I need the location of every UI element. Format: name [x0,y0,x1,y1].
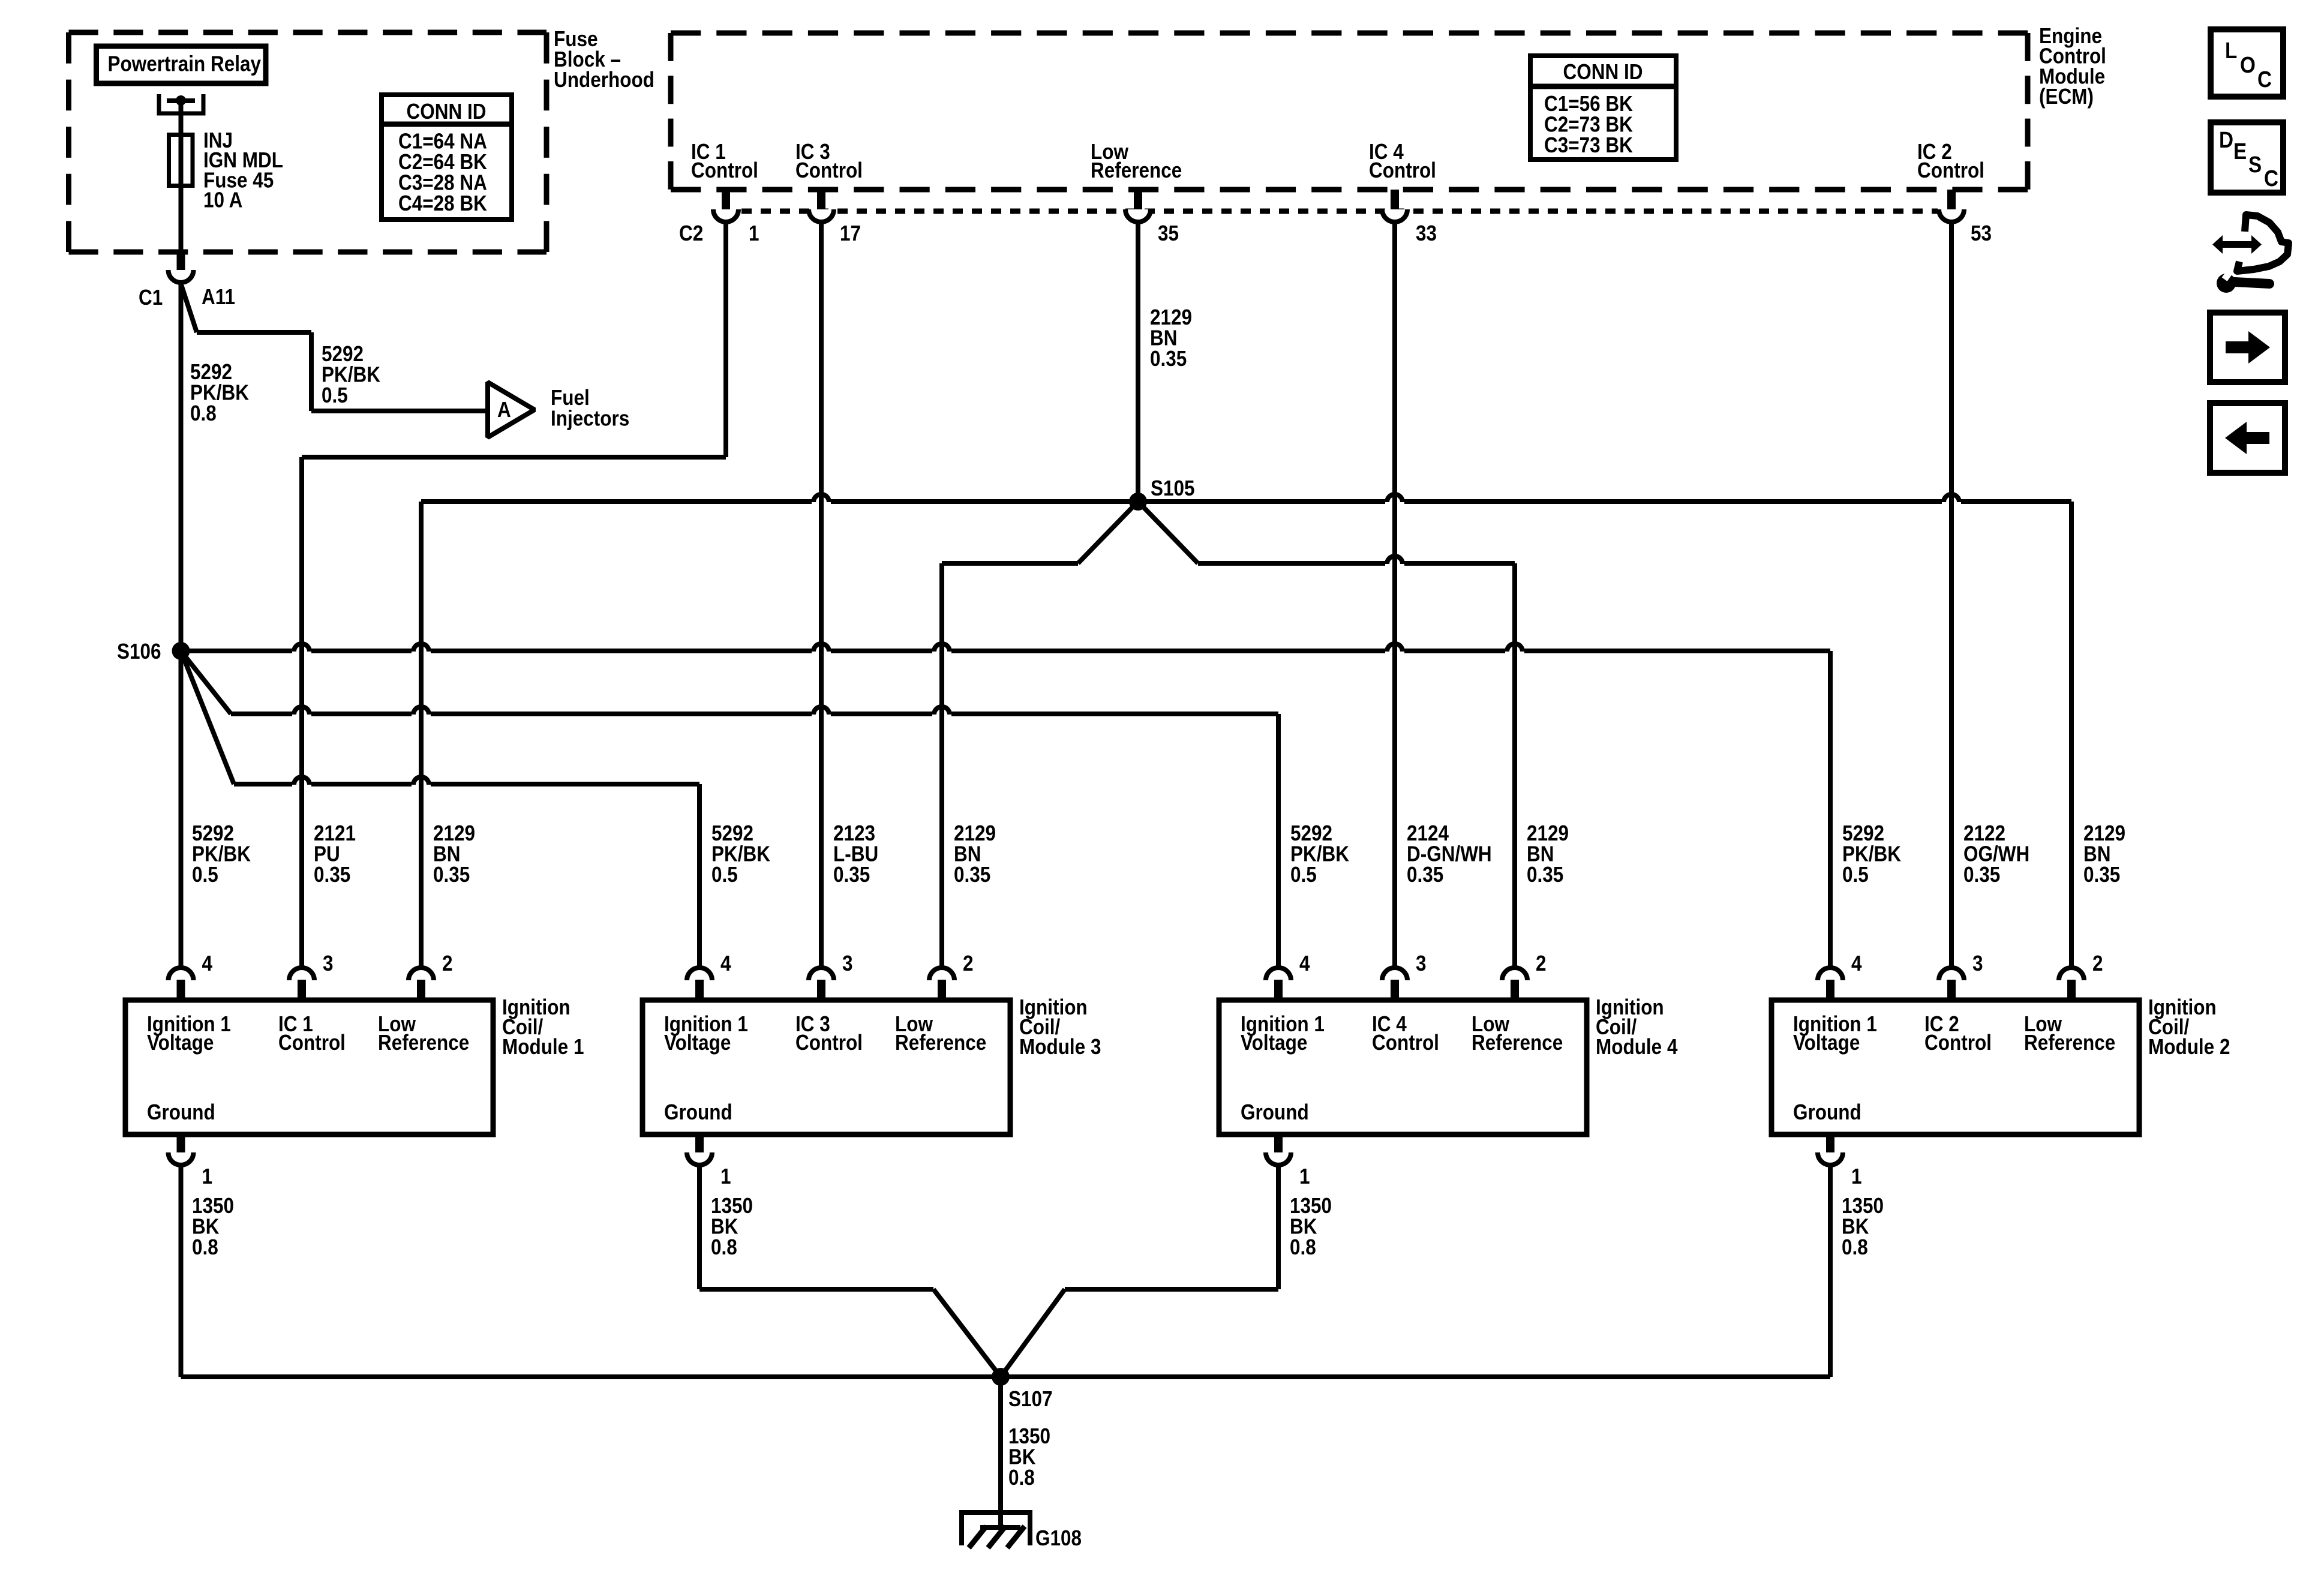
svg-text:4: 4 [1851,951,1862,975]
svg-text:Control: Control [1372,1031,1439,1055]
svg-text:Module 2: Module 2 [2148,1035,2230,1059]
svg-text:0.35: 0.35 [1527,863,1563,887]
svg-text:3: 3 [323,951,334,975]
svg-text:Control: Control [1917,158,1984,182]
svg-text:0.35: 0.35 [1407,863,1443,887]
svg-text:0.35: 0.35 [433,863,470,887]
svg-text:Ground: Ground [1241,1100,1309,1124]
svg-text:Module 3: Module 3 [1019,1035,1101,1059]
svg-text:A11: A11 [202,285,235,309]
svg-text:C2: C2 [679,221,703,245]
svg-text:Underhood: Underhood [554,68,654,92]
svg-text:Voltage: Voltage [147,1031,214,1055]
svg-text:4: 4 [202,951,213,975]
svg-text:33: 33 [1416,221,1437,245]
svg-text:CONN ID: CONN ID [1563,60,1643,84]
svg-text:0.35: 0.35 [1963,863,2000,887]
svg-text:4: 4 [1299,951,1310,975]
svg-text:Ground: Ground [1793,1100,1861,1124]
svg-text:10 A: 10 A [203,188,242,212]
svg-text:Voltage: Voltage [1241,1031,1307,1055]
svg-text:Control: Control [795,1031,863,1055]
svg-text:1: 1 [720,1164,731,1188]
svg-text:0.35: 0.35 [1150,347,1187,371]
svg-text:2: 2 [1536,951,1547,975]
svg-text:0.5: 0.5 [322,383,348,407]
svg-text:17: 17 [840,221,861,245]
svg-text:2: 2 [2092,951,2103,975]
svg-text:1: 1 [202,1164,213,1188]
svg-text:1: 1 [749,221,759,245]
svg-text:0.5: 0.5 [192,863,218,887]
svg-text:3: 3 [1416,951,1427,975]
svg-text:0.8: 0.8 [1008,1466,1035,1490]
svg-text:O: O [2240,52,2256,78]
svg-text:1: 1 [1299,1164,1310,1188]
svg-text:Module 1: Module 1 [502,1035,584,1059]
svg-text:C: C [2264,166,2278,191]
svg-text:Control: Control [278,1031,346,1055]
svg-text:0.5: 0.5 [1842,863,1869,887]
svg-text:53: 53 [1971,221,1992,245]
svg-text:S: S [2248,152,2262,178]
svg-text:4: 4 [720,951,731,975]
svg-text:Reference: Reference [378,1031,469,1055]
svg-text:G108: G108 [1035,1526,1082,1550]
svg-text:3: 3 [1972,951,1983,975]
svg-text:Control: Control [1924,1031,1992,1055]
svg-text:Voltage: Voltage [1793,1031,1860,1055]
svg-text:1: 1 [1851,1164,1862,1188]
svg-text:Voltage: Voltage [664,1031,731,1055]
svg-text:0.35: 0.35 [314,863,350,887]
svg-text:Ground: Ground [664,1100,732,1124]
svg-text:L: L [2225,38,2237,64]
svg-text:Reference: Reference [1091,158,1182,182]
svg-text:2: 2 [442,951,453,975]
svg-text:C1: C1 [139,286,163,310]
svg-text:Reference: Reference [895,1031,986,1055]
svg-text:Control: Control [1369,158,1436,182]
svg-text:S105: S105 [1151,476,1195,500]
svg-text:D: D [2219,127,2233,153]
svg-text:C: C [2257,67,2272,92]
svg-text:Control: Control [691,158,758,182]
svg-text:S107: S107 [1008,1387,1053,1411]
svg-text:0.8: 0.8 [711,1235,737,1259]
svg-text:2: 2 [963,951,974,975]
svg-text:(ECM): (ECM) [2039,85,2094,109]
svg-text:0.5: 0.5 [711,863,738,887]
svg-text:0.5: 0.5 [1290,863,1317,887]
svg-text:0.35: 0.35 [954,863,990,887]
svg-text:S106: S106 [117,640,161,664]
svg-text:C4=28 BK: C4=28 BK [398,191,487,215]
svg-text:0.35: 0.35 [2083,863,2120,887]
svg-text:Module 4: Module 4 [1596,1035,1678,1059]
svg-text:3: 3 [842,951,853,975]
svg-text:0.8: 0.8 [192,1235,218,1259]
svg-text:0.8: 0.8 [1290,1235,1316,1259]
svg-text:Reference: Reference [1472,1031,1563,1055]
svg-text:35: 35 [1158,221,1179,245]
svg-text:Control: Control [795,158,863,182]
svg-text:0.35: 0.35 [833,863,870,887]
svg-text:Powertrain Relay: Powertrain Relay [108,52,262,76]
svg-text:Injectors: Injectors [551,407,629,431]
svg-text:Ground: Ground [147,1100,215,1124]
svg-text:C3=73 BK: C3=73 BK [1544,133,1633,157]
svg-text:0.8: 0.8 [190,401,217,425]
svg-text:0.8: 0.8 [1842,1235,1868,1259]
svg-text:E: E [2233,139,2247,164]
svg-text:A: A [497,398,511,422]
svg-text:Reference: Reference [2024,1031,2115,1055]
svg-text:CONN ID: CONN ID [407,100,487,124]
